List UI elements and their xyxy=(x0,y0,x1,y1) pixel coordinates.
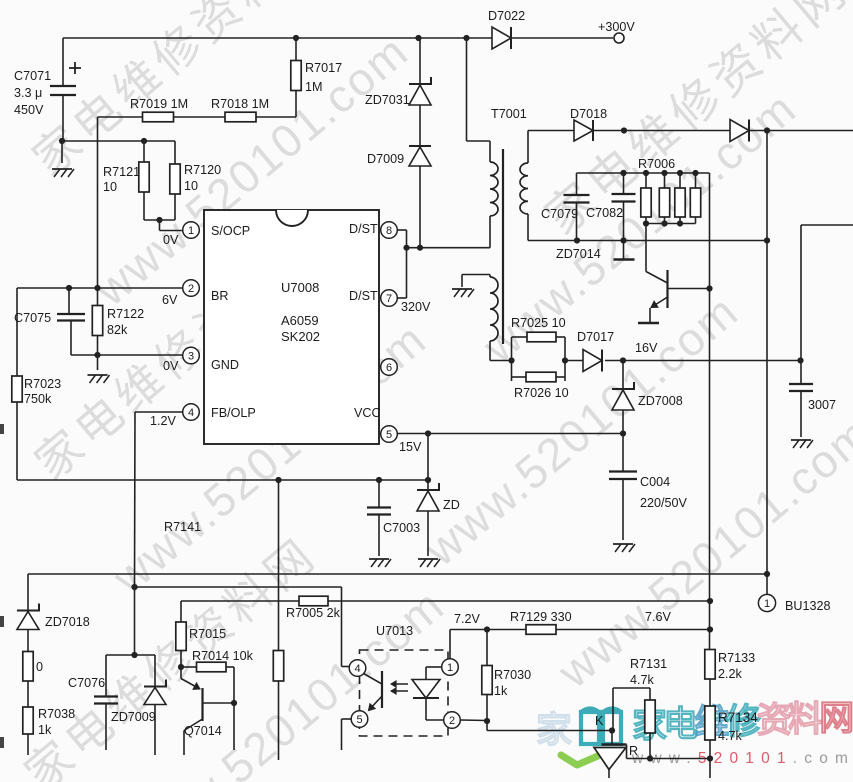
svg-text:1: 1 xyxy=(188,225,194,237)
pin 1 S/OCP xyxy=(183,222,200,239)
transformer T7001 secondary 2 xyxy=(452,288,472,290)
svg-text:6: 6 xyxy=(386,362,392,374)
transformer T7001 secondary 1 xyxy=(527,131,529,164)
svg-text:R7038: R7038 xyxy=(38,707,75,721)
pin 1 xyxy=(442,659,459,676)
capacitor C7075 xyxy=(68,288,70,314)
svg-text:网: 网 xyxy=(819,699,853,738)
svg-text:1k: 1k xyxy=(38,723,52,737)
edge marks xyxy=(0,424,4,434)
svg-text:资: 资 xyxy=(757,701,792,740)
transistor Q7014 xyxy=(180,667,182,679)
resistor R7129 330 xyxy=(526,625,556,635)
svg-text:16V: 16V xyxy=(635,341,658,355)
svg-text:1: 1 xyxy=(764,598,770,610)
svg-text:4: 4 xyxy=(188,407,194,419)
svg-text:4.7k: 4.7k xyxy=(630,673,655,687)
resistor R7018 1M xyxy=(174,116,226,118)
svg-text:1k: 1k xyxy=(494,684,508,698)
zener ZD7008 xyxy=(622,361,624,390)
svg-text:U7008: U7008 xyxy=(281,280,319,295)
svg-text:电: 电 xyxy=(663,705,698,744)
svg-text:ZD7031: ZD7031 xyxy=(365,93,410,107)
capacitor C004 220/50V xyxy=(622,434,624,472)
wire C7076/ZD7009 branch xyxy=(106,654,155,656)
svg-text:R7030: R7030 xyxy=(494,668,531,682)
zener ZD7009 xyxy=(154,655,156,687)
ground xyxy=(418,558,438,560)
svg-text:7.2V: 7.2V xyxy=(454,612,481,626)
svg-text:4: 4 xyxy=(354,663,360,675)
svg-text:R7120: R7120 xyxy=(184,163,221,177)
svg-text:R7025 10: R7025 10 xyxy=(511,316,566,330)
resistor R7133 2.2k xyxy=(705,650,715,680)
svg-text:R7122: R7122 xyxy=(107,307,144,321)
svg-text:VCC: VCC xyxy=(354,406,381,420)
zener ZD7031 xyxy=(419,38,421,84)
diode D7017 xyxy=(562,357,568,363)
capacitor C7071 xyxy=(62,38,64,85)
svg-text:3: 3 xyxy=(188,351,194,363)
svg-text:0V: 0V xyxy=(163,233,179,247)
svg-text:R7129 330: R7129 330 xyxy=(510,610,572,624)
svg-text:R7015: R7015 xyxy=(189,627,226,641)
svg-text:D/ST: D/ST xyxy=(349,222,378,236)
svg-text:1M: 1M xyxy=(305,80,323,94)
pin 5 xyxy=(351,711,368,728)
svg-text:FB/OLP: FB/OLP xyxy=(211,406,256,420)
svg-text:U7013: U7013 xyxy=(376,624,413,638)
resistor R7120 10 xyxy=(174,141,176,164)
capacitor 3007 xyxy=(800,359,802,384)
svg-text:8: 8 xyxy=(386,225,392,237)
ground xyxy=(613,543,633,545)
svg-text:SK202: SK202 xyxy=(281,329,320,344)
svg-text:D7022: D7022 xyxy=(488,9,525,23)
wire pin5 out xyxy=(342,718,352,720)
svg-text:450V: 450V xyxy=(14,103,44,117)
ground xyxy=(623,241,625,260)
svg-text:D7018: D7018 xyxy=(570,107,607,121)
svg-text:A6059: A6059 xyxy=(281,313,319,328)
svg-text:750k: 750k xyxy=(24,392,52,406)
svg-text:220/50V: 220/50V xyxy=(640,496,688,510)
svg-text:10: 10 xyxy=(184,179,198,193)
svg-text:R7121: R7121 xyxy=(103,165,140,179)
svg-text:C004: C004 xyxy=(640,475,670,489)
pin 6 xyxy=(381,359,398,376)
svg-text:5: 5 xyxy=(386,429,392,441)
LED xyxy=(426,666,442,668)
svg-text:R7133: R7133 xyxy=(718,651,755,665)
wire 15V xyxy=(398,433,624,435)
pin 5 VCC xyxy=(381,426,398,443)
svg-text:R7019 1M: R7019 1M xyxy=(130,97,188,111)
shunt regulator TL431 xyxy=(611,731,613,745)
capacitor C7079 xyxy=(576,173,578,195)
pin 3 GND xyxy=(183,347,200,364)
wire pins 8-7 to primary xyxy=(398,229,407,231)
resistor R7005 2k xyxy=(181,600,299,602)
logo watermark bottom-right xyxy=(536,699,853,767)
svg-text:R7134: R7134 xyxy=(718,710,758,725)
svg-text:R7005 2k: R7005 2k xyxy=(286,606,341,620)
svg-text:C7076: C7076 xyxy=(68,676,105,690)
wire +300V top rail xyxy=(63,37,613,39)
svg-text:C7075: C7075 xyxy=(14,311,51,325)
terminal BU1328 xyxy=(766,574,768,595)
svg-text:+300V: +300V xyxy=(598,20,635,34)
svg-text:7: 7 xyxy=(386,293,392,305)
phototransistor xyxy=(364,674,383,685)
wire 6V node xyxy=(17,287,183,289)
svg-text:ZD7009: ZD7009 xyxy=(111,710,156,724)
svg-text:R7131: R7131 xyxy=(630,657,667,671)
resistor R7122 82k xyxy=(97,288,99,306)
svg-text:C7079: C7079 xyxy=(541,207,578,221)
svg-text:BR: BR xyxy=(211,289,229,303)
ground xyxy=(638,322,659,325)
resistor R7030 1k xyxy=(486,630,488,666)
svg-text:5: 5 xyxy=(356,714,362,726)
light arrows xyxy=(391,683,408,685)
svg-text:BU1328: BU1328 xyxy=(785,599,831,613)
svg-text:6V: 6V xyxy=(162,293,178,307)
svg-text:R7018 1M: R7018 1M xyxy=(211,97,269,111)
svg-text:Q7014: Q7014 xyxy=(184,724,222,738)
svg-text:ZD7014: ZD7014 xyxy=(556,247,601,261)
capacitor C7076 xyxy=(105,655,107,696)
wire pin2 to K node xyxy=(460,719,487,722)
transformer T7001 core xyxy=(502,149,504,344)
resistor R7017 1M xyxy=(295,91,297,118)
svg-text:T7001: T7001 xyxy=(491,107,527,121)
svg-text:15V: 15V xyxy=(399,440,422,454)
pin 8 D/ST xyxy=(381,222,398,239)
wire R node xyxy=(627,758,711,760)
svg-text:R7026 10: R7026 10 xyxy=(514,386,569,400)
svg-text:GND: GND xyxy=(211,358,239,372)
svg-text:家: 家 xyxy=(536,709,572,750)
wire node below C7071 xyxy=(59,138,65,144)
svg-text:R7017: R7017 xyxy=(305,61,342,75)
svg-text:1: 1 xyxy=(447,662,453,674)
svg-text:ZD7008: ZD7008 xyxy=(638,394,683,408)
optocoupler U7013 xyxy=(360,650,449,736)
wire 0V to pin 3 xyxy=(71,354,183,356)
resistor R7015 xyxy=(180,601,182,622)
zener ZD7018 xyxy=(17,604,39,611)
wire 7.2V rail xyxy=(449,630,451,659)
ground xyxy=(97,355,99,370)
svg-text:0: 0 xyxy=(36,660,43,674)
svg-text:C7071: C7071 xyxy=(14,69,51,83)
svg-text:D7017: D7017 xyxy=(577,330,614,344)
diode D7022 xyxy=(492,27,511,49)
wire BU1328 vertical xyxy=(766,131,768,241)
transformer T7001 primary xyxy=(466,38,468,141)
svg-text:3.3 μ: 3.3 μ xyxy=(14,86,42,100)
svg-text:R7014 10k: R7014 10k xyxy=(192,649,254,663)
svg-text:82k: 82k xyxy=(107,323,128,337)
svg-text:ZD: ZD xyxy=(443,498,460,512)
wire rail A xyxy=(28,573,767,575)
IC U7008 A6059 SK202 xyxy=(204,210,379,444)
svg-text:R7141: R7141 xyxy=(164,520,201,534)
svg-text:D7009: D7009 xyxy=(367,152,404,166)
resistor divider vertical xyxy=(278,480,280,651)
zener ZD xyxy=(427,434,429,481)
capacitor C7003 xyxy=(378,480,380,507)
svg-text:R7006: R7006 xyxy=(638,157,675,171)
svg-text:C7082: C7082 xyxy=(586,206,623,220)
svg-text:ZD7018: ZD7018 xyxy=(45,615,90,629)
svg-text:C7003: C7003 xyxy=(383,521,420,535)
resistor R7134 4.7k xyxy=(705,706,715,740)
pin 7 D/ST xyxy=(381,290,398,307)
resistor R7121 10 xyxy=(143,141,145,162)
svg-text:1.2V: 1.2V xyxy=(150,414,177,428)
terminal +300V xyxy=(614,33,624,43)
pin 2 xyxy=(444,712,461,729)
resistor R7025 10 xyxy=(508,357,514,363)
svg-text:7.6V: 7.6V xyxy=(645,610,672,624)
ground xyxy=(369,558,389,560)
svg-text:320V: 320V xyxy=(401,300,431,314)
ground xyxy=(791,439,811,441)
diode D7018 xyxy=(574,120,593,141)
svg-text:2.2k: 2.2k xyxy=(718,667,743,681)
svg-text:R: R xyxy=(629,744,638,758)
resistor R7023 750k xyxy=(12,376,22,402)
wire feedback vertical xyxy=(709,173,711,650)
svg-text:4.7k: 4.7k xyxy=(718,729,743,743)
svg-text:0V: 0V xyxy=(163,359,179,373)
diode xyxy=(730,120,749,142)
wire right vertical xyxy=(801,224,853,226)
resistor 0 xyxy=(23,652,33,682)
pin 2 BR xyxy=(183,280,200,297)
wire secondary bottom rail xyxy=(528,240,767,242)
svg-text:3007: 3007 xyxy=(808,398,836,412)
svg-text:S/OCP: S/OCP xyxy=(211,224,250,238)
pin 4 xyxy=(349,660,366,677)
svg-text:D/ST: D/ST xyxy=(349,289,378,303)
wire rectifier rail xyxy=(528,130,853,132)
wire 16V rail xyxy=(620,357,626,363)
diode D7009 xyxy=(419,105,421,146)
svg-text:2: 2 xyxy=(188,283,194,295)
svg-text:2: 2 xyxy=(449,715,455,727)
resistor R7014 10k xyxy=(181,666,197,668)
wire BR divider vertical xyxy=(97,117,99,288)
svg-text:10: 10 xyxy=(103,180,117,194)
wire R7006 top rail xyxy=(577,172,710,174)
resistor R7038 1k xyxy=(23,707,33,734)
wire 0V rail xyxy=(17,479,428,481)
resistor R7026 10 xyxy=(512,376,527,378)
pin 4 FB/OLP xyxy=(183,404,200,421)
svg-text:料: 料 xyxy=(788,700,823,739)
transistor Q xyxy=(645,224,647,272)
wire 1.2V feedback xyxy=(135,411,183,413)
wire to pin 1 xyxy=(144,219,175,221)
resistor R7131 4.7k xyxy=(612,688,614,731)
svg-text:K: K xyxy=(595,714,604,728)
svg-text:R7023: R7023 xyxy=(24,377,61,391)
capacitor C7082 xyxy=(623,173,625,194)
resistor R7019 1M xyxy=(98,116,143,118)
ground xyxy=(61,141,63,163)
